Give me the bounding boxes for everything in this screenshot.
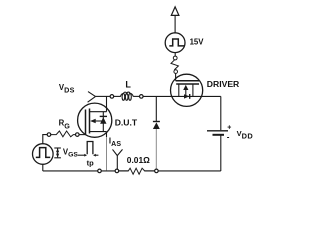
DUT source wire down	[106, 132, 108, 137]
driver gate bar	[176, 80, 199, 82]
top rail (inductor to battery corner)	[143, 95, 221, 97]
svg-text:DRIVER: DRIVER	[207, 79, 240, 89]
DUT gate lead	[79, 134, 85, 136]
DUT body diode triangle	[100, 117, 106, 124]
shunt resistor 0.01 ohm zigzag	[119, 168, 155, 174]
battery VDD long plate	[207, 130, 228, 132]
wire arrow to 15V source	[174, 15, 176, 33]
inductor right terminal	[140, 95, 144, 99]
DUT source stub	[90, 131, 107, 133]
svg-text:VGS: VGS	[63, 148, 78, 159]
svg-text:L: L	[125, 80, 131, 90]
inductor L coil	[120, 92, 133, 97]
battery bottom wire	[220, 135, 222, 171]
top rail (drain node to inductor)	[95, 95, 110, 97]
svg-text:0.01Ω: 0.01Ω	[127, 155, 150, 165]
DUT body diode vertical	[102, 112, 104, 132]
driver drain stub	[192, 84, 194, 96]
supply arrow (open triangle to +supply)	[171, 7, 179, 16]
D.U.T. MOSFET Q1 (circle)	[78, 103, 112, 137]
resistor RG left terminal	[47, 133, 51, 137]
terminal at diode node	[155, 169, 159, 173]
svg-text:VDS: VDS	[59, 83, 75, 94]
15V pulse source V2	[165, 33, 185, 53]
VGS pulse generator circle	[33, 144, 54, 165]
tp pulse glyph	[87, 142, 93, 155]
svg-text:VDD: VDD	[237, 129, 254, 141]
clamp diode D1 branch wire upper	[155, 96, 157, 121]
curl zigzag	[171, 60, 178, 70]
resistor RG right terminal	[76, 133, 80, 137]
driver body diode (apex right)	[184, 94, 189, 98]
svg-text:+: +	[227, 124, 231, 131]
driver channel bar	[176, 83, 199, 85]
tp right arrow	[95, 154, 98, 156]
wire curl to driver gate	[175, 73, 177, 80]
driver source stub	[178, 84, 180, 96]
svg-text:IAS: IAS	[109, 137, 122, 148]
IAS probe	[113, 149, 123, 155]
VGS measure double arrow	[54, 147, 61, 149]
VGS pulse generator V1 wire up	[43, 135, 47, 144]
VGS generator wire down	[42, 164, 44, 171]
svg-text:RG: RG	[59, 119, 71, 131]
DUT body stub with arrow	[90, 119, 96, 123]
resistor RG zigzag	[51, 131, 76, 137]
tp left arrow	[78, 154, 85, 156]
DUT drain stub	[90, 111, 107, 113]
driver MOSFET Q2 (circle)	[171, 74, 203, 106]
clamp diode triangle	[153, 122, 160, 129]
V_DS probe arrow	[88, 92, 96, 103]
clamp diode cathode bar	[153, 121, 160, 123]
VGS generator pulse glyph	[36, 148, 50, 158]
svg-text:-: -	[227, 133, 230, 142]
clamp diode branch wire lower	[155, 129, 157, 169]
battery VDD short plate	[213, 134, 225, 136]
curl bottom loop	[174, 70, 178, 74]
driver body stub with arrow	[183, 85, 188, 90]
DUT body diode cathode bar	[100, 115, 107, 117]
svg-text:15V: 15V	[190, 38, 205, 47]
wire drain stub up	[106, 96, 108, 111]
svg-text:tp: tp	[87, 159, 94, 168]
bottom rail	[43, 170, 221, 172]
DUT channel bar	[89, 109, 91, 134]
terminal at IAS node	[115, 169, 119, 173]
curl top loop	[173, 56, 177, 60]
terminal at source sense	[98, 169, 102, 173]
battery feed wire down	[220, 96, 222, 130]
DUT gate bar	[85, 110, 87, 135]
wire terminal to coil	[114, 95, 121, 97]
inductor left terminal	[110, 95, 114, 99]
driver gate feed curl: wire	[174, 53, 176, 57]
svg-text:D.U.T: D.U.T	[115, 117, 138, 127]
